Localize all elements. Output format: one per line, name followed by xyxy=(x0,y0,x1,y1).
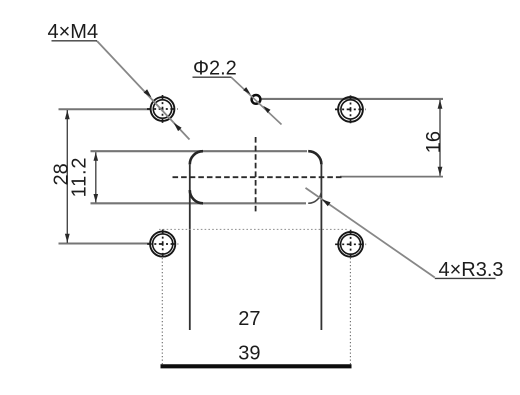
svg-text:4×R3.3: 4×R3.3 xyxy=(439,259,504,281)
svg-text:39: 39 xyxy=(238,343,260,365)
svg-text:16: 16 xyxy=(423,131,445,153)
svg-text:4×M4: 4×M4 xyxy=(48,21,99,43)
svg-text:Φ2.2: Φ2.2 xyxy=(193,57,237,79)
svg-text:27: 27 xyxy=(238,308,260,330)
svg-text:11.2: 11.2 xyxy=(69,157,91,198)
